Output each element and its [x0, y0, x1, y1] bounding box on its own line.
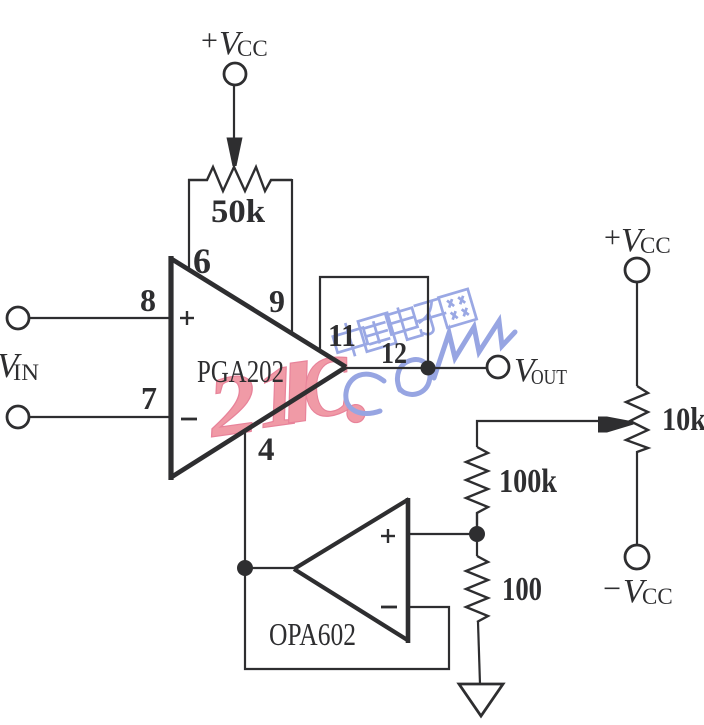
label -VCC right	[603, 570, 673, 610]
svg-text:OUT: OUT	[531, 365, 567, 389]
label VIN	[0, 346, 39, 385]
svg-text:PGA202: PGA202	[197, 353, 284, 389]
op-amp OPA602	[294, 498, 409, 643]
wiper arrow	[598, 417, 634, 433]
wire 100 to ground	[478, 622, 480, 684]
watermark .com blue script	[346, 321, 515, 414]
plus input symbol OPA602	[381, 529, 395, 543]
feedback loop pins 11-12	[320, 277, 428, 368]
svg-text:CC: CC	[642, 584, 673, 609]
wire junction to 100	[476, 534, 478, 556]
potentiometer 10k	[626, 386, 648, 452]
wire pin 7	[29, 416, 169, 418]
svg-text:4: 4	[258, 432, 275, 468]
wire pin 8	[29, 317, 169, 319]
svg-text:+: +	[604, 221, 621, 254]
svg-text:CC: CC	[237, 36, 268, 61]
watermark 21IC pink letters	[199, 336, 367, 456]
label +VCC top	[201, 24, 268, 62]
minus input symbol OPA602	[381, 606, 397, 609]
ground	[459, 684, 503, 716]
op-amp PGA202	[170, 256, 346, 480]
watermark CJK 中国电子网 outline	[330, 287, 477, 361]
label +VCC right	[604, 221, 671, 259]
wire from +VCC terminal down	[233, 85, 235, 140]
wire +VCC to pot	[636, 282, 638, 386]
label VOUT	[514, 352, 567, 389]
wire OPA602 plus input	[409, 533, 477, 535]
svg-text:100k: 100k	[499, 463, 557, 500]
output wire	[346, 367, 487, 369]
resistor 50k	[188, 167, 292, 191]
svg-text:12: 12	[381, 335, 407, 370]
wire 50k right to pin 9	[291, 179, 293, 332]
wire pot to -VCC	[636, 451, 638, 545]
wire pot wiper to 100k	[477, 421, 598, 447]
svg-text:8: 8	[140, 282, 156, 318]
terminal +VCC top	[224, 63, 246, 85]
resistor 100	[466, 556, 488, 622]
terminal VOUT	[487, 356, 509, 378]
input terminal pin 7	[7, 406, 29, 428]
svg-text:CC: CC	[640, 233, 671, 258]
svg-text:−: −	[603, 570, 621, 606]
gain-set arrow into 50k resistor	[227, 138, 243, 167]
svg-text:OPA602: OPA602	[269, 616, 356, 652]
input terminal pin 8	[7, 307, 29, 329]
pin 4 wire down	[244, 430, 246, 568]
junction node 100k/100	[469, 526, 485, 542]
svg-text:100: 100	[502, 571, 542, 608]
svg-text:IN: IN	[13, 360, 39, 385]
svg-text:50k: 50k	[211, 194, 266, 230]
svg-text:10k: 10k	[662, 402, 704, 438]
wire 50k left to pin 6	[188, 179, 190, 268]
resistor 100k	[466, 447, 488, 527]
wire OPA602 output	[245, 567, 295, 569]
junction node pin4/OPA output	[237, 560, 253, 576]
terminal +VCC right	[625, 258, 649, 282]
plus input symbol	[180, 311, 194, 325]
junction output node	[421, 361, 436, 376]
feedback wire OPA602	[245, 568, 449, 669]
minus input symbol	[181, 418, 197, 421]
svg-text:9: 9	[269, 283, 285, 319]
svg-text:7: 7	[141, 380, 157, 416]
terminal -VCC	[625, 545, 649, 569]
svg-text:+: +	[201, 24, 218, 57]
svg-text:11: 11	[328, 317, 356, 353]
